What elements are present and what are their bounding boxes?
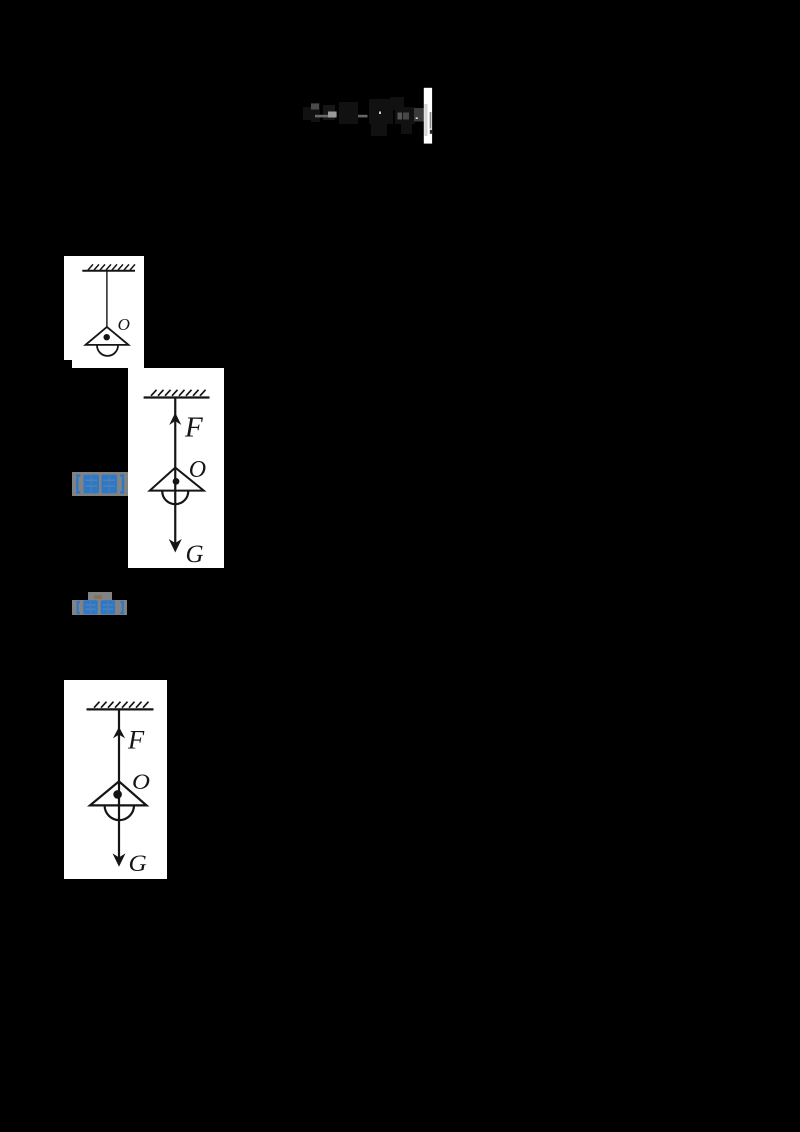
svg-text:O: O	[132, 770, 150, 794]
svg-text:O: O	[118, 315, 130, 334]
white figure box 1: hanging lamp	[64, 256, 144, 368]
gray fraction bar segments	[311, 104, 424, 122]
svg-text:F: F	[127, 724, 145, 754]
gray highlight block 1 (answer)	[72, 472, 127, 496]
svg-text:O: O	[188, 457, 205, 483]
ceiling line	[82, 269, 135, 271]
gray highlight block 2 (analysis) with tab	[88, 592, 112, 600]
force line G segment	[118, 781, 120, 863]
white figure box 2: force diagram	[128, 368, 224, 568]
lamp triangle	[86, 326, 129, 344]
lamp bulb semicircle	[97, 345, 118, 355]
pivot dot	[172, 478, 179, 485]
lamp bulb semicircle	[105, 805, 134, 820]
ceiling line	[87, 708, 154, 710]
arrowhead G down	[169, 539, 182, 553]
svg-text:G: G	[185, 541, 203, 568]
force line F segment	[174, 398, 176, 468]
black notch bottom-left of box 1	[64, 360, 72, 368]
ceiling hatches	[88, 264, 135, 270]
string wire	[106, 271, 108, 327]
white vertical bar	[424, 88, 432, 144]
svg-text:F: F	[184, 412, 203, 444]
ceiling hatches	[94, 701, 149, 707]
blue answer text imitation	[78, 476, 124, 493]
svg-text:G: G	[129, 851, 147, 877]
lamp triangle	[90, 781, 147, 805]
arrowhead F up	[169, 413, 181, 425]
faint formula scribble left	[303, 97, 415, 136]
faint equation remnants at top center	[285, 85, 435, 150]
pivot dot	[104, 334, 110, 340]
ceiling hatches	[151, 390, 206, 396]
force line G segment	[174, 468, 176, 549]
blue analysis text imitation	[77, 602, 122, 613]
arrowhead F up	[113, 726, 125, 738]
ceiling line	[143, 396, 209, 398]
arrowhead G down	[113, 853, 126, 866]
lamp bulb semicircle	[162, 491, 188, 504]
pivot dot	[113, 790, 122, 799]
lamp triangle	[150, 468, 204, 491]
force line F segment	[118, 709, 120, 781]
white figure box 3: force diagram	[64, 680, 167, 880]
